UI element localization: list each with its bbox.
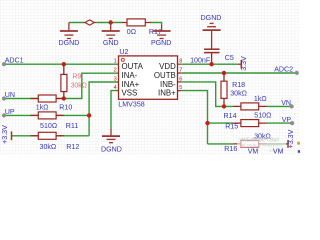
svg-text:R15: R15 [225, 123, 238, 131]
wire pin5 riser [181, 91, 207, 144]
svg-text:R18: R18 [232, 81, 245, 89]
svg-text:0Ω: 0Ω [127, 28, 136, 36]
svg-text:4: 4 [114, 85, 117, 91]
terminal dot VN [290, 104, 294, 108]
resistor R18 vertical [223, 73, 225, 106]
svg-text:R16: R16 [224, 145, 237, 153]
wire R14 to VN [267, 105, 292, 107]
svg-text:3.3V: 3.3V [240, 56, 248, 71]
net-tie diamond [83, 22, 96, 24]
wire R16 to flag [267, 143, 286, 145]
svg-text:100nF: 100nF [190, 57, 211, 65]
svg-text:PGND: PGND [151, 39, 172, 47]
wire ADC1 to pin1 [4, 63, 119, 65]
svg-text:30kΩ: 30kΩ [40, 143, 57, 151]
svg-text:VSS: VSS [122, 88, 138, 97]
resistor R12 [31, 135, 64, 137]
wire pin6 to VN row [181, 82, 233, 107]
resistor R17 [122, 22, 151, 24]
wire VDD row [181, 63, 237, 65]
svg-text:510Ω: 510Ω [254, 111, 271, 119]
resistor R15 [233, 122, 266, 124]
watermark [237, 139, 289, 147]
terminal dot VP [290, 121, 294, 125]
svg-text:VM: VM [248, 148, 259, 155]
junction C5/VDD [209, 62, 213, 66]
svg-text:INB+: INB+ [158, 88, 176, 97]
svg-text:30kΩ: 30kΩ [71, 83, 87, 90]
ground DGND middle [102, 129, 120, 143]
ground DGND top-left [60, 23, 78, 39]
junction R18 bottom [222, 104, 226, 108]
wire R15 to VP [267, 122, 293, 124]
junction R18 top [222, 71, 226, 75]
svg-text:LMV358: LMV358 [118, 101, 144, 109]
capacitor C5 [204, 49, 219, 64]
svg-text:ADC2: ADC2 [274, 66, 293, 74]
op-amp U2 body [119, 56, 178, 99]
svg-text:R12: R12 [66, 143, 79, 151]
wire top row [69, 23, 162, 25]
junction top [109, 20, 113, 24]
svg-text:30kΩ: 30kΩ [230, 90, 247, 98]
svg-text:2: 2 [114, 68, 117, 74]
power flag +3.3V bottom right [286, 143, 288, 145]
ground GND [102, 23, 120, 39]
power flag 3.3V right [237, 63, 241, 65]
wire UP row riser pin3 and 3.3V row [4, 82, 119, 136]
junction UP riser [87, 113, 91, 117]
junction ADC1/R9 [62, 62, 66, 66]
svg-text:DGND: DGND [201, 14, 222, 22]
wire pin4 to DGND [111, 91, 119, 129]
power flag +3.3V left [11, 131, 13, 140]
svg-text:510Ω: 510Ω [40, 122, 57, 130]
svg-text:U2: U2 [119, 48, 128, 56]
resistor R10 [31, 98, 64, 100]
svg-text:INA-: INA- [122, 71, 138, 80]
terminal dot UN [2, 96, 6, 100]
terminal dot UP [2, 113, 6, 117]
edge artifact blue [298, 150, 300, 153]
svg-text:+3.3V: +3.3V [1, 125, 9, 144]
wire VM row [208, 143, 234, 145]
pin1 marker [121, 58, 124, 61]
ground PGND [153, 24, 171, 38]
terminal dot ADC1 [2, 62, 6, 66]
wire VP row [208, 122, 234, 124]
svg-text:DGND: DGND [58, 39, 79, 47]
junction UN/R9 [62, 96, 66, 100]
junction VP riser [205, 121, 209, 125]
resistor R9 vertical [63, 64, 65, 98]
svg-text:R10: R10 [59, 103, 72, 111]
svg-text:DGND: DGND [101, 146, 122, 154]
svg-text:VN: VN [281, 99, 291, 107]
ground DGND inverted [203, 23, 221, 49]
edge artifact orange [297, 142, 300, 145]
terminal dot ADC2 [295, 71, 299, 75]
resistor R16 [233, 143, 266, 145]
svg-text:1: 1 [114, 59, 117, 65]
wire ADC2 row [181, 72, 296, 74]
svg-text:1kΩ: 1kΩ [36, 103, 49, 111]
svg-text:VP: VP [282, 116, 292, 124]
svg-text:R11: R11 [66, 122, 79, 130]
resistor R14 [233, 105, 266, 107]
svg-text:OUTA: OUTA [122, 62, 144, 71]
wire UN row riser pin2 [4, 73, 119, 98]
svg-text:1kΩ: 1kΩ [254, 95, 267, 103]
resistor R11 [31, 114, 64, 116]
svg-text:VDD: VDD [159, 62, 176, 71]
svg-text:+3.3V: +3.3V [287, 129, 295, 148]
svg-text:OUTB: OUTB [154, 71, 176, 80]
svg-text:ADC1: ADC1 [5, 56, 24, 64]
svg-text:GND: GND [103, 39, 119, 47]
op-amp U2 pin stubs [178, 64, 182, 90]
svg-text:R14: R14 [224, 112, 237, 120]
svg-text:C5: C5 [225, 54, 234, 62]
svg-text:3: 3 [114, 77, 117, 83]
svg-text:R9: R9 [72, 74, 81, 81]
svg-text:VM: VM [273, 148, 284, 155]
